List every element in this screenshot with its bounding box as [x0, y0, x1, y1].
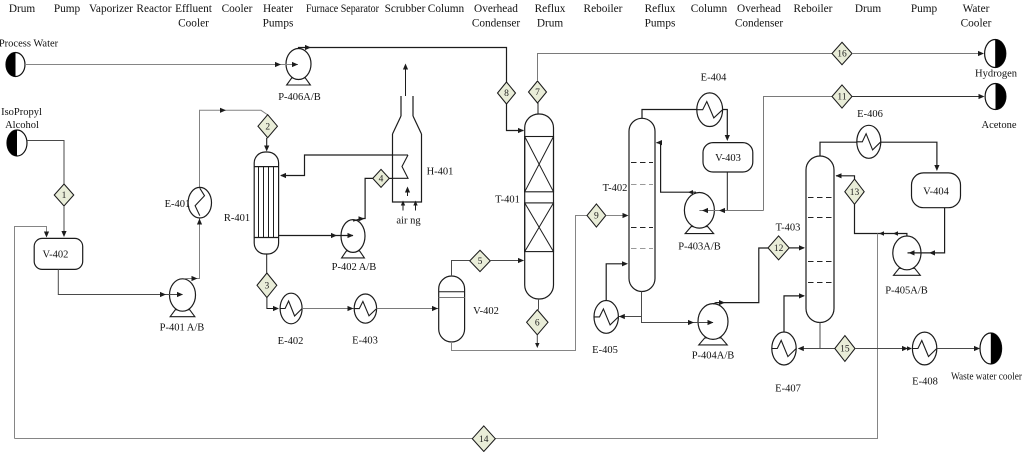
wire P-403 reflux to T-402 top: [656, 140, 696, 194]
svg-text:P-403A/B: P-403A/B: [678, 242, 721, 253]
svg-text:Process Water: Process Water: [0, 39, 59, 50]
wire stream 11 to acetone outlet: [852, 94, 985, 99]
svg-text:V-403: V-403: [715, 153, 741, 164]
wire E-408 to waste water outlet: [937, 346, 980, 351]
burner flame arrow: [405, 187, 410, 197]
wire P-405 discharge reflux to stream 13: [855, 204, 907, 236]
stream diamond 3: [257, 273, 277, 298]
drum V-404: [912, 173, 961, 208]
svg-text:air ng: air ng: [396, 216, 421, 227]
stream diamond 2: [258, 115, 278, 138]
wire T-401 overhead to stream 7: [537, 103, 539, 114]
header equipment-type labels: [9, 3, 992, 30]
svg-text:13: 13: [850, 188, 860, 198]
wire E-404 to V-403: [723, 110, 730, 142]
svg-text:Cooler: Cooler: [222, 3, 253, 15]
pump P-404A/B: [692, 304, 735, 362]
wire R-401 outlet to P-402 suction: [279, 233, 354, 238]
svg-text:T-402: T-402: [603, 183, 628, 194]
svg-text:T-403: T-403: [776, 223, 801, 234]
svg-text:Cooler: Cooler: [178, 18, 209, 30]
svg-text:Reflux: Reflux: [535, 3, 566, 15]
svg-text:Alcohol: Alcohol: [5, 120, 39, 131]
wire T-403 overhead to E-406: [820, 142, 857, 156]
wire stream 12 to T-403 feed: [789, 245, 805, 250]
svg-text:E-404: E-404: [701, 73, 727, 84]
svg-text:Reboiler: Reboiler: [584, 3, 623, 15]
wire E-403 to V-402 separator: [377, 306, 439, 311]
svg-text:8: 8: [504, 89, 509, 99]
wire P-402 discharge to stream 4: [353, 178, 373, 221]
svg-text:Pumps: Pumps: [263, 18, 294, 30]
svg-text:Hydrogen: Hydrogen: [975, 69, 1018, 80]
svg-text:E-403: E-403: [352, 336, 378, 347]
wire V-403 bottoms to P-403 suction: [699, 172, 763, 213]
wire P-404 discharge to stream 12: [713, 248, 768, 305]
svg-text:16: 16: [837, 50, 847, 60]
wire H-401 coil outlet to R-401 side inlet: [280, 155, 393, 178]
wire E-407 return to T-403: [784, 293, 805, 332]
pump P-402 A/B: [332, 220, 377, 273]
stream diamond 1: [54, 184, 74, 206]
svg-text:E-408: E-408: [912, 377, 938, 388]
svg-text:2: 2: [265, 122, 270, 132]
wire recycle into V-402 top: [15, 227, 50, 439]
stream diamond 16: [832, 42, 852, 65]
svg-text:Drum: Drum: [855, 3, 882, 15]
wire IPA feed to stream 1: [27, 141, 64, 185]
svg-text:Pumps: Pumps: [645, 18, 676, 30]
svg-text:4: 4: [379, 175, 384, 185]
stream diamond 7: [529, 81, 547, 103]
wire V-402 to P-401 suction: [58, 270, 183, 298]
stream diamond 5: [470, 250, 491, 271]
wire stream 15 to E-408: [855, 346, 912, 351]
stream diamond 15: [835, 336, 855, 362]
furnace H-401: [393, 96, 454, 202]
output Hydrogen: [975, 40, 1018, 80]
svg-text:Drum: Drum: [537, 18, 564, 30]
exchanger E-401 vaporizer: [165, 187, 212, 218]
column T-402: [603, 118, 655, 291]
output Waste water cooler: [951, 333, 1023, 383]
svg-text:Condenser: Condenser: [735, 18, 784, 30]
svg-text:5: 5: [478, 257, 483, 267]
input IsoPropyl Alcohol: [1, 107, 42, 156]
svg-text:Acetone: Acetone: [982, 120, 1017, 131]
svg-text:P-406A/B: P-406A/B: [278, 92, 321, 103]
svg-text:V-404: V-404: [923, 187, 950, 198]
pump P-406A/B: [278, 49, 321, 104]
svg-text:Waste water cooler: Waste water cooler: [951, 372, 1023, 383]
pump P-403A/B: [678, 193, 721, 253]
furnace stack vent arrow: [403, 64, 408, 97]
wire T-403 bottoms tee: [798, 323, 835, 352]
wire E-405 return to T-402: [606, 261, 628, 300]
stream diamond 9: [587, 204, 606, 227]
pump P-405A/B: [885, 236, 928, 297]
svg-text:3: 3: [265, 282, 270, 292]
svg-text:Pump: Pump: [54, 3, 81, 15]
svg-text:Cooler: Cooler: [961, 18, 992, 30]
svg-text:H-401: H-401: [427, 167, 454, 178]
svg-text:Overhead: Overhead: [737, 3, 781, 15]
svg-text:P-402 A/B: P-402 A/B: [332, 262, 377, 273]
wire stream 8 to T-401 top feed: [507, 104, 525, 133]
svg-text:12: 12: [774, 244, 784, 254]
wire T-401 bottoms to stream 6: [538, 299, 540, 310]
svg-text:9: 9: [594, 212, 599, 222]
svg-text:E-407: E-407: [775, 384, 801, 395]
wire stream 4 to H-401 coil: [389, 177, 392, 179]
wire stream 9 to T-402 feed: [606, 213, 629, 218]
stream diamond 11: [832, 85, 852, 108]
stream diamond 14: [472, 426, 495, 452]
drum V-403: [703, 143, 753, 172]
exchanger E-408: [912, 332, 938, 387]
svg-text:R-401: R-401: [224, 213, 250, 224]
svg-text:Drum: Drum: [9, 3, 36, 15]
column T-403: [776, 156, 834, 323]
stream diamond 13: [845, 179, 864, 204]
wire T-402 bottoms tee: [619, 292, 698, 323]
input Process Water: [0, 39, 59, 77]
svg-text:Water: Water: [963, 3, 990, 15]
wire stream 6 to bottoms header: [535, 335, 539, 348]
svg-text:1: 1: [62, 191, 67, 201]
wire stream 5 to T-401 lower feed: [490, 258, 524, 263]
wire V-404 bottoms to P-405 suction: [908, 208, 945, 256]
separator V-402: [439, 276, 499, 342]
column T-401: [495, 114, 553, 299]
svg-text:Scrubber: Scrubber: [385, 3, 426, 15]
svg-text:Effluent: Effluent: [175, 3, 213, 15]
furnace coil: [393, 155, 409, 178]
svg-text:T-401: T-401: [495, 195, 520, 206]
wire T-402 overhead to E-404: [642, 110, 697, 119]
stream diamond 12: [768, 236, 789, 260]
svg-text:V-402: V-402: [42, 250, 68, 261]
wire stream 2 to R-401 top: [264, 138, 269, 152]
svg-text:Column: Column: [428, 3, 465, 15]
stream diamond 8: [498, 82, 516, 104]
svg-text:15: 15: [840, 345, 850, 355]
stream diamond 4: [373, 169, 390, 187]
exchanger E-407: [772, 332, 801, 395]
stream diamond 6: [527, 310, 548, 335]
wire stream 7 to hydrogen header: [538, 54, 833, 82]
svg-text:Overhead: Overhead: [474, 3, 518, 15]
svg-text:E-405: E-405: [592, 345, 618, 356]
svg-text:Column: Column: [691, 3, 728, 15]
wire R-401 bottoms to stream 3: [266, 254, 268, 273]
svg-text:E-402: E-402: [278, 336, 304, 347]
reactor R-401: [224, 152, 279, 254]
svg-text:Pump: Pump: [911, 3, 938, 15]
svg-text:Reboiler: Reboiler: [794, 3, 833, 15]
svg-text:Vaporizer: Vaporizer: [89, 3, 133, 15]
wire separator vapor to stream 5: [452, 261, 470, 277]
svg-text:E-406: E-406: [857, 109, 883, 120]
svg-text:IsoPropyl: IsoPropyl: [1, 107, 42, 118]
svg-text:Heater: Heater: [263, 3, 293, 15]
svg-text:6: 6: [535, 319, 540, 329]
air and ng burner feeds: [396, 201, 421, 227]
svg-text:Furnace Separator: Furnace Separator: [306, 3, 379, 15]
exchanger E-405: [592, 301, 618, 357]
exchanger E-406: [857, 109, 883, 158]
svg-text:V-402: V-402: [473, 306, 499, 317]
svg-text:Reflux: Reflux: [645, 3, 676, 15]
wire separator bottoms header: [452, 216, 587, 351]
svg-text:Reactor: Reactor: [136, 3, 171, 15]
wire stream 16 to hydrogen outlet: [852, 51, 984, 56]
wire E-406 to V-404: [881, 142, 940, 171]
svg-text:14: 14: [479, 435, 489, 445]
wire P-406A/B discharge to stream 8: [299, 45, 507, 82]
wire stream 3 to E-402: [267, 298, 279, 312]
svg-text:P-405A/B: P-405A/B: [885, 286, 928, 297]
svg-text:7: 7: [535, 88, 540, 98]
output Acetone: [982, 84, 1017, 132]
exchanger E-402: [278, 293, 304, 347]
svg-text:Condenser: Condenser: [472, 18, 521, 30]
pump P-401 A/B: [160, 279, 205, 334]
svg-text:P-404A/B: P-404A/B: [692, 351, 735, 362]
wire stream 1 to V-402 drum: [61, 206, 66, 237]
wire T-402 bottoms to P-404 suction: [660, 320, 714, 325]
svg-text:11: 11: [837, 93, 846, 103]
wire recycle line to stream 14: [15, 234, 878, 439]
exchanger E-403: [352, 294, 378, 347]
wire E-402 to E-403: [302, 306, 354, 311]
drum V-402: [34, 238, 82, 269]
wire stream 13 to T-403 reflux: [836, 173, 855, 179]
wire P-401 discharge riser through E-401: [184, 108, 268, 281]
wire process water to P-406A/B suction: [25, 62, 298, 67]
svg-text:E-401: E-401: [165, 199, 191, 210]
wire acetone product line to stream 11: [764, 97, 833, 211]
svg-text:P-401 A/B: P-401 A/B: [160, 323, 205, 334]
exchanger E-404: [697, 73, 727, 127]
